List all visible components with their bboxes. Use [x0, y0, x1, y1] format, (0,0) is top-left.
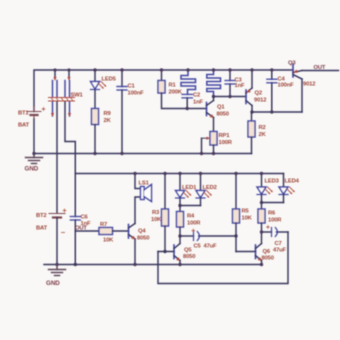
junction R9 bottom rail: [93, 152, 96, 155]
transistor Q1 8050: [207, 97, 214, 132]
capacitor C2: [182, 94, 192, 108]
svg-text:Q4: Q4: [138, 229, 146, 235]
LED LED2: [196, 174, 212, 206]
wire C5 coupling y=236: [180, 235, 194, 237]
junction R5 lower rail: [234, 172, 237, 175]
wire cross-coupling loop C7 to Q5 base: [158, 232, 288, 284]
plus mark C7: [267, 226, 270, 229]
svg-text:8050: 8050: [262, 256, 274, 262]
junction Q4 emitter ground: [133, 263, 136, 266]
svg-text:Q2: Q2: [255, 91, 262, 97]
transistor Q2 9012: [246, 70, 252, 112]
svg-text:R9: R9: [104, 111, 112, 117]
svg-text:Q6: Q6: [263, 249, 271, 255]
transistor Q3 9012: [293, 64, 302, 112]
inductor L2 (meander coil): [207, 70, 221, 97]
svg-text:R3: R3: [152, 210, 160, 216]
resistor R9: [92, 109, 99, 125]
junction C1 bottom rail: [120, 152, 123, 155]
junction L2 top rail: [212, 68, 215, 71]
wire C7 coupling y=232: [262, 231, 272, 233]
svg-text:Q1: Q1: [217, 105, 225, 111]
svg-text:Q5: Q5: [184, 248, 192, 254]
junction R3 lower rail: [163, 172, 166, 175]
wire OUT (Q3 emitter): [302, 70, 339, 72]
svg-text:9012: 9012: [254, 98, 266, 104]
transistor Q4 8050: [129, 224, 136, 265]
junction Q6 emitter ground: [260, 263, 263, 266]
svg-text:LED2: LED2: [203, 185, 217, 191]
junction LED1 lower rail: [178, 172, 181, 175]
wire BT2 to ground wire: [56, 218, 58, 265]
svg-text:R1: R1: [169, 83, 177, 89]
junction SW1 pin A top rail: [53, 68, 56, 71]
resistor R6: [258, 203, 265, 233]
wire left rail BT1 bottom to GND: [33, 119, 35, 154]
svg-text:LED5: LED5: [102, 77, 117, 83]
resistor R1: [158, 70, 207, 109]
ground GND1: [26, 154, 43, 164]
resistor R7: [75, 228, 128, 235]
switch SW1 (DPDT): [49, 70, 75, 117]
svg-text:C1: C1: [128, 84, 136, 90]
svg-text:200K: 200K: [169, 90, 183, 96]
inductor L1 (meander coil): [181, 70, 196, 94]
battery BT2 minus mark: [62, 232, 65, 234]
potentiometer RP1: [202, 132, 218, 154]
svg-text:9012: 9012: [303, 82, 315, 88]
svg-text:100R: 100R: [219, 140, 233, 146]
svg-text:8050: 8050: [217, 112, 229, 118]
wire LED3/LED4 cathodes y=202.5: [262, 202, 284, 204]
svg-text:1nF: 1nF: [193, 100, 203, 106]
svg-text:R6: R6: [268, 211, 276, 217]
wire SW1 to C6 / lower rail (stepped): [65, 102, 75, 174]
LED LED3: [257, 174, 273, 203]
svg-text:LS1: LS1: [139, 181, 150, 187]
junction LS1 lower rail: [133, 172, 136, 175]
junction BT2 ground: [55, 263, 58, 266]
junction C3 top rail: [228, 68, 231, 71]
wire bottom rail of top section y=153.5: [34, 153, 252, 155]
transistor Q6 8050: [256, 232, 262, 265]
svg-text:1nF: 1nF: [235, 83, 245, 89]
junction Q2 emitter top rail: [250, 68, 253, 71]
junction R3 Q5 base: [163, 250, 166, 253]
junction C6 ground wire: [74, 263, 77, 266]
wire Q5 base: [158, 251, 174, 253]
junction LED1 / R4: [178, 204, 181, 207]
junction R4 / Q5 collector / C5: [178, 234, 181, 237]
wire SW1 to BT2: [56, 102, 58, 213]
svg-text:BAT: BAT: [36, 226, 48, 232]
LED LED5: [91, 70, 107, 109]
svg-text:Q3: Q3: [288, 61, 296, 67]
wire LED1/LED2 cathodes y=205.5: [180, 205, 201, 207]
battery BT1 plus mark: [42, 108, 45, 111]
junction RP1 wiper bottom rail: [200, 152, 203, 155]
junction RP1 bottom rail: [212, 152, 215, 155]
resistor R3: [162, 174, 169, 252]
svg-text:100R: 100R: [187, 221, 201, 227]
junction R1 top rail: [160, 68, 163, 71]
svg-text:LED1: LED1: [182, 185, 197, 191]
junction Q2 collector / R2: [250, 110, 253, 113]
wire top rail VCC y=70: [34, 70, 293, 112]
svg-text:R2: R2: [259, 125, 266, 131]
wire ground bus y=264.5: [44, 264, 262, 266]
svg-text:47uF: 47uF: [273, 248, 287, 254]
svg-text:R5: R5: [242, 209, 250, 215]
svg-text:BT2: BT2: [36, 213, 47, 219]
svg-text:R7: R7: [100, 222, 107, 228]
svg-text:100nF: 100nF: [278, 83, 295, 89]
junction LED2 lower rail: [199, 172, 202, 175]
junction R6 / Q6 collector / C7: [260, 230, 263, 233]
capacitor C3: [225, 70, 235, 97]
junction Q5 emitter ground: [178, 263, 181, 266]
wire collector bus y=112: [252, 111, 302, 113]
wire lower rail y=173.5: [75, 173, 283, 175]
junction top rail / GND1: [32, 152, 35, 155]
transistor Q5 8050: [174, 236, 180, 265]
ground GND2: [49, 265, 66, 276]
battery BT2: [49, 214, 65, 218]
svg-text:BT1: BT1: [18, 111, 29, 117]
capacitor C6: [70, 174, 80, 265]
svg-text:SW1: SW1: [71, 93, 84, 99]
svg-text:R4: R4: [187, 214, 195, 220]
svg-text:GND: GND: [25, 166, 39, 173]
junction C4 top rail: [270, 68, 273, 71]
capacitor C4: [267, 70, 277, 112]
svg-text:C7: C7: [275, 241, 282, 247]
junction LED3 lower rail: [260, 172, 263, 175]
junction C1 top rail: [120, 68, 123, 71]
junction C4 collector bus: [270, 110, 273, 113]
capacitor C1: [117, 70, 127, 154]
capacitor C5 (electrolytic): [194, 232, 200, 241]
junction LED3 / R6: [260, 201, 263, 204]
wire R9 to bottom rail: [94, 125, 96, 154]
svg-text:C2: C2: [193, 93, 200, 99]
svg-text:2K: 2K: [259, 132, 267, 138]
svg-text:LED4: LED4: [285, 179, 300, 185]
battery BT1: [27, 107, 41, 119]
svg-text:100nF: 100nF: [128, 91, 145, 97]
svg-text:8050: 8050: [137, 236, 149, 242]
svg-text:10K: 10K: [242, 216, 253, 222]
LED LED1: [176, 174, 192, 206]
svg-text:OUT: OUT: [314, 65, 326, 71]
svg-text:10K: 10K: [151, 217, 162, 223]
svg-text:LED3: LED3: [265, 179, 280, 185]
junction LED5 top rail: [93, 68, 96, 71]
svg-text:RP1: RP1: [219, 133, 231, 139]
capacitor C7 (electrolytic): [272, 228, 278, 237]
junction C2 base wire: [186, 107, 189, 110]
svg-text:47uF: 47uF: [204, 244, 218, 250]
plus mark C5: [192, 229, 195, 232]
junction C3 base wire: [228, 95, 231, 98]
junction L1 top rail: [186, 68, 189, 71]
svg-text:C6: C6: [81, 215, 89, 221]
resistor R2: [248, 112, 255, 154]
LED LED4: [279, 174, 295, 203]
resistor R4: [177, 206, 184, 237]
junction L2 / Q1 collector: [212, 95, 215, 98]
junction SW1 pin B top rail: [67, 68, 70, 71]
svg-text:10K: 10K: [103, 238, 114, 244]
svg-text:8050: 8050: [183, 254, 195, 260]
svg-text:BAT: BAT: [18, 123, 30, 129]
svg-text:C5: C5: [194, 244, 202, 250]
svg-text:100R: 100R: [268, 218, 282, 224]
svg-text:2K: 2K: [104, 118, 112, 124]
wire Q6 base: [236, 251, 256, 253]
battery BT2 plus mark: [63, 209, 66, 212]
speaker LS1: [135, 174, 152, 224]
resistor R5: [233, 174, 240, 252]
svg-text:GND: GND: [46, 280, 60, 287]
junction C5 / R5 column: [234, 234, 237, 237]
wire Q1 collector node to Q2 base y=96.5: [214, 96, 247, 98]
